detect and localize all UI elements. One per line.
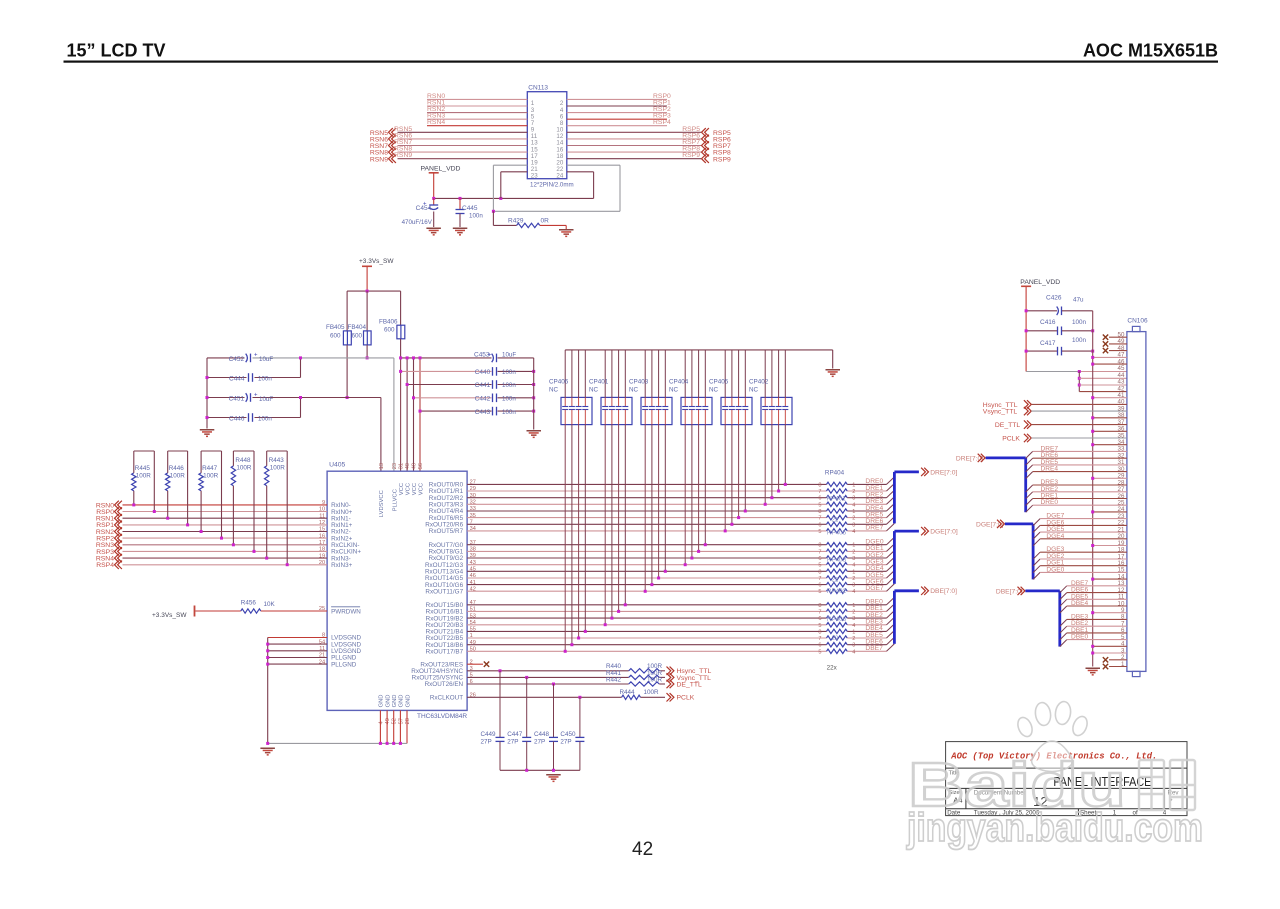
node DBE6 label bbox=[865, 639, 883, 646]
wire VCC pin48 drop bbox=[413, 358, 415, 471]
wire DRE1 from U405 bbox=[467, 490, 826, 492]
svg-text:CP404: CP404 bbox=[669, 379, 689, 386]
svg-text:FB405: FB405 bbox=[326, 324, 345, 331]
junction DBE7 cap tap bbox=[564, 650, 567, 653]
wire RSN7 to CN113 pin 15 bbox=[398, 145, 528, 147]
svg-text:C440: C440 bbox=[475, 369, 491, 376]
resistor pack RP403 label bbox=[827, 557, 847, 564]
connector CN113 bbox=[527, 85, 567, 179]
node RSN3 label bbox=[427, 113, 445, 120]
svg-text:2: 2 bbox=[852, 609, 855, 615]
resistor pack RP406 label bbox=[827, 616, 847, 623]
junction DGE3 cap tap bbox=[684, 563, 687, 566]
resistor R440 100R bbox=[467, 663, 665, 673]
wire C442 row bbox=[414, 397, 534, 399]
svg-text:RSN9: RSN9 bbox=[370, 156, 388, 163]
svg-text:+3.3Vs_SW: +3.3Vs_SW bbox=[359, 258, 394, 265]
svg-text:27P: 27P bbox=[560, 738, 571, 745]
svg-text:RxOUT17/B7: RxOUT17/B7 bbox=[426, 649, 464, 656]
off-page connector RSP7 bbox=[702, 141, 731, 150]
wire CP cap column to DRE1 bbox=[778, 425, 780, 491]
off-page connector DRE[7:0] in bbox=[956, 454, 985, 463]
wire CP cap column to DRE3 bbox=[764, 425, 766, 505]
svg-text:100n: 100n bbox=[502, 409, 516, 416]
svg-text:3: 3 bbox=[852, 616, 855, 622]
wire CP cap column to DRE5 bbox=[738, 425, 740, 518]
svg-text:GND: GND bbox=[405, 695, 411, 708]
capacitor C442 100n bbox=[475, 394, 517, 403]
capacitor network CP402 NC bbox=[749, 350, 792, 425]
U405 left GND pin names bbox=[319, 633, 362, 669]
svg-text:5: 5 bbox=[818, 623, 821, 629]
svg-text:4: 4 bbox=[378, 721, 384, 724]
wire C440 row bbox=[401, 370, 534, 372]
wire DRE2 RP to bus bbox=[847, 497, 886, 499]
svg-text:5: 5 bbox=[818, 502, 821, 508]
svg-text:24: 24 bbox=[556, 173, 563, 180]
wire RSP0 to U405 bbox=[123, 511, 328, 513]
resistor pack RP401 label bbox=[827, 495, 847, 502]
off-page connector RSP6 bbox=[702, 135, 731, 144]
resistor R444 100R bbox=[467, 689, 665, 700]
junction PANEL_VDD-pin23 bbox=[499, 197, 502, 200]
svg-text:100n: 100n bbox=[502, 396, 516, 403]
svg-text:RP404: RP404 bbox=[825, 470, 845, 477]
wire CP cap column to DGE1 bbox=[698, 425, 700, 552]
node DGE4 label bbox=[865, 565, 883, 572]
junction C442 tap bbox=[412, 396, 415, 399]
node DBE0 label bbox=[865, 599, 883, 606]
svg-text:6: 6 bbox=[818, 643, 821, 649]
wire CP cap column to DGE7 bbox=[644, 425, 646, 592]
svg-text:23: 23 bbox=[392, 463, 398, 469]
off-page connector RSN2 input bbox=[96, 527, 122, 536]
svg-text:RP406: RP406 bbox=[827, 616, 847, 623]
svg-text:6: 6 bbox=[818, 522, 821, 528]
off-page connector DGE[7:0] in bbox=[976, 520, 1004, 529]
junction DRE7 cap tap bbox=[724, 529, 727, 532]
svg-text:1: 1 bbox=[852, 629, 855, 635]
off-page connector DRE[7:0] out bbox=[921, 468, 957, 477]
svg-text:DRE[7:0]: DRE[7:0] bbox=[930, 469, 957, 476]
svg-text:R442: R442 bbox=[606, 676, 622, 683]
svg-text:1: 1 bbox=[852, 569, 855, 575]
wire DRE3 RP to bus bbox=[847, 503, 886, 505]
svg-text:PLLGND: PLLGND bbox=[331, 661, 357, 668]
svg-text:3: 3 bbox=[852, 643, 855, 649]
junction rail A x48 bbox=[412, 356, 415, 359]
node DGE6 label bbox=[865, 578, 883, 585]
wire DGE6 from U405 bbox=[467, 584, 826, 586]
node RSN0 label bbox=[427, 93, 445, 100]
junction DBE5 cap tap bbox=[577, 637, 580, 640]
wire DRE7 from U405 bbox=[467, 530, 826, 532]
svg-text:R429: R429 bbox=[508, 218, 524, 225]
svg-text:DGE[7:0]: DGE[7:0] bbox=[930, 529, 958, 536]
svg-text:5: 5 bbox=[818, 529, 821, 535]
svg-text:4: 4 bbox=[852, 623, 855, 629]
svg-text:12*2PIN/2.0mm: 12*2PIN/2.0mm bbox=[530, 182, 574, 189]
wire CP cap column to DBE4 bbox=[584, 425, 586, 632]
svg-text:CN106: CN106 bbox=[1127, 318, 1148, 325]
svg-text:R446: R446 bbox=[169, 465, 185, 472]
wire CP cap column to DBE7 bbox=[564, 425, 566, 652]
wire VDD pin43 bbox=[1079, 384, 1127, 386]
junction VDD branch bbox=[1078, 370, 1081, 373]
node DGE3 label bbox=[865, 559, 883, 566]
wire RSP2 from CN113 pin 6 bbox=[567, 112, 667, 114]
wire DE_TTL to CN106 bbox=[1031, 424, 1127, 426]
wire CN113 pin23 stub bbox=[501, 172, 528, 199]
junction rail A x40 bbox=[406, 356, 409, 359]
svg-text:6: 6 bbox=[818, 616, 821, 622]
svg-text:57: 57 bbox=[398, 718, 404, 724]
junction C442 right bbox=[532, 396, 535, 399]
svg-text:C446: C446 bbox=[229, 416, 245, 423]
junction Vsync_TTL cap tap bbox=[525, 676, 528, 679]
svg-text:100n: 100n bbox=[258, 416, 272, 423]
svg-text:27P: 27P bbox=[534, 738, 545, 745]
wire CP cap column to DRE0 bbox=[784, 425, 786, 485]
junction bottom GND rail bbox=[266, 742, 402, 745]
wire PANEL_VDD to pin45 bbox=[1026, 371, 1127, 373]
svg-text:jingyan.baidu.com: jingyan.baidu.com bbox=[906, 806, 1203, 850]
ground left cap group bbox=[200, 429, 215, 437]
wire DGE3 from U405 bbox=[467, 564, 826, 566]
svg-text:2: 2 bbox=[852, 489, 855, 495]
off-page connector RSN3 input bbox=[96, 541, 122, 550]
svg-text:100R: 100R bbox=[236, 465, 252, 472]
svg-text:R444: R444 bbox=[620, 689, 636, 696]
node DGE0 label bbox=[865, 539, 883, 546]
off-page connector RSN8 bbox=[370, 148, 396, 157]
svg-text:2: 2 bbox=[852, 636, 855, 642]
node DBE1 label bbox=[865, 605, 883, 612]
wire DGE6 RP to bus bbox=[847, 584, 886, 586]
wire C451 row bbox=[207, 397, 381, 399]
svg-text:GND: GND bbox=[385, 695, 391, 708]
resistor pack rows 0 bbox=[818, 482, 855, 508]
svg-text:8: 8 bbox=[818, 509, 821, 515]
wire DGE1 from U405 bbox=[467, 550, 826, 552]
wire DGE0 RP to bus bbox=[847, 544, 886, 546]
node RSN1 label bbox=[427, 100, 445, 107]
wire CP top rail bbox=[565, 350, 833, 369]
capacitor C446 100n bbox=[229, 413, 272, 422]
svg-text:42: 42 bbox=[1118, 385, 1125, 392]
svg-text:C445: C445 bbox=[462, 205, 478, 212]
svg-text:PANEL_VDD: PANEL_VDD bbox=[421, 166, 461, 173]
svg-text:1: 1 bbox=[852, 543, 855, 549]
svg-text:PANEL_VDD: PANEL_VDD bbox=[1020, 279, 1060, 286]
off-page connector Vsync_TTL bbox=[667, 673, 712, 682]
wire RSN2 to U405 bbox=[123, 531, 328, 533]
wire VCC rail A bbox=[401, 357, 534, 359]
wire CP cap column to DGE2 bbox=[691, 425, 693, 558]
wire C446 row bbox=[207, 417, 301, 419]
svg-text:DRE4: DRE4 bbox=[1041, 466, 1059, 473]
junction DBE3 cap tap bbox=[604, 623, 607, 626]
value 22 label b bbox=[832, 577, 839, 583]
svg-text:C441: C441 bbox=[475, 382, 491, 389]
wire DGE5 RP to bus bbox=[847, 577, 886, 579]
wire RSN8 to CN113 pin 17 bbox=[398, 151, 528, 153]
capacitor C444 100n bbox=[229, 373, 272, 382]
junction VDD pin43 bbox=[1078, 384, 1081, 387]
node DRE4 label bbox=[865, 505, 883, 512]
junction C451 row right bbox=[299, 396, 302, 399]
wire CN106 gnd pin stubs bbox=[1091, 356, 1127, 655]
junction C452 row right bbox=[299, 356, 302, 359]
junction R448 leg a bbox=[232, 543, 235, 546]
svg-text:C443: C443 bbox=[475, 409, 491, 416]
wire DBE7 RP to bus bbox=[847, 650, 886, 652]
svg-text:7: 7 bbox=[818, 516, 821, 522]
ferrite bead FB406 bbox=[379, 319, 405, 339]
svg-text:15” LCD TV: 15” LCD TV bbox=[67, 41, 166, 61]
wire DRE7 RP to bus bbox=[847, 530, 886, 532]
svg-text:RSP9: RSP9 bbox=[713, 156, 731, 163]
svg-text:RxIN3+: RxIN3+ bbox=[331, 562, 352, 569]
junction R445 leg b bbox=[153, 510, 156, 513]
wire DGE5 from U405 bbox=[467, 577, 826, 579]
svg-text:5: 5 bbox=[818, 649, 821, 655]
node DRE6 label bbox=[865, 518, 883, 525]
wire RSP4 to U405 bbox=[123, 564, 328, 566]
op-amp U405 LVDS transmitter body bbox=[327, 462, 467, 720]
junction R443 leg b bbox=[286, 563, 289, 566]
no-connect X pins CN106 bbox=[1103, 335, 1127, 670]
svg-text:DGE0: DGE0 bbox=[1046, 566, 1064, 573]
svg-text:LVDSVCC: LVDSVCC bbox=[379, 490, 385, 517]
svg-text:49: 49 bbox=[385, 718, 391, 724]
wire VCC pin56 drop bbox=[419, 358, 421, 471]
node RSP4 label bbox=[653, 119, 671, 126]
wire DGE7 from U405 bbox=[467, 590, 826, 592]
connector CN106 bbox=[1127, 318, 1148, 677]
svg-text:100n: 100n bbox=[1072, 319, 1087, 326]
bus DGE[7:0] branch labels bbox=[1046, 513, 1064, 574]
svg-text:R456: R456 bbox=[241, 600, 257, 607]
wire DRE2 from U405 bbox=[467, 497, 826, 499]
wire DBE1 RP to bus bbox=[847, 610, 886, 612]
title block PANEL INTERFACE bbox=[1053, 774, 1151, 789]
off-page connector RSN6 bbox=[370, 135, 396, 144]
wire VCC pin31 drop bbox=[400, 358, 402, 471]
svg-text:100R: 100R bbox=[170, 473, 186, 480]
off-page connector RSN0 input bbox=[96, 501, 122, 510]
wire DGE0 from U405 bbox=[467, 544, 826, 546]
svg-text:VCC: VCC bbox=[418, 483, 424, 495]
junction PANEL_VDD-C445 bbox=[459, 197, 462, 200]
wire DBE2 from U405 bbox=[467, 617, 826, 619]
junction left leg C451 bbox=[206, 396, 209, 399]
wire CP cap column to DGE5 bbox=[658, 425, 660, 578]
wire DBE5 RP to bus bbox=[847, 637, 886, 639]
svg-text:GND: GND bbox=[379, 695, 385, 708]
svg-text:27P: 27P bbox=[481, 738, 492, 745]
junction R446 leg a bbox=[166, 517, 169, 520]
wire CN113 pin21 stub bbox=[493, 165, 527, 211]
capacitor network CP405 NC bbox=[709, 350, 752, 425]
wire CP cap column to DBE6 bbox=[571, 425, 573, 645]
svg-text:C452: C452 bbox=[229, 356, 245, 363]
svg-text:47u: 47u bbox=[1073, 297, 1084, 304]
wire DRE5 RP to bus bbox=[847, 517, 886, 519]
bus DBE[7:0] branch labels bbox=[1071, 580, 1089, 641]
wire LVDSGND vertical bbox=[267, 638, 269, 744]
title block date row bbox=[947, 809, 1167, 816]
title block Title label bbox=[949, 771, 960, 777]
wire DGE4 RP to bus bbox=[847, 570, 886, 572]
ferrite bead FB405 bbox=[326, 324, 351, 345]
svg-text:4: 4 bbox=[852, 649, 855, 655]
wire DGE3 RP to bus bbox=[847, 564, 886, 566]
svg-text:8: 8 bbox=[818, 543, 821, 549]
resistor R456 10K bbox=[195, 600, 327, 614]
power symbol +3.3Vs_SW left bbox=[152, 606, 195, 619]
wire DBE3 RP to bus bbox=[847, 624, 886, 626]
off-page connector RSN7 bbox=[370, 141, 396, 150]
node DGE5 label bbox=[865, 572, 883, 579]
capacitor network CP403 NC bbox=[629, 350, 672, 425]
off-page connector RSP5 bbox=[702, 128, 731, 137]
svg-text:6: 6 bbox=[818, 496, 821, 502]
junction DGE1 cap tap bbox=[697, 550, 700, 553]
svg-text:2: 2 bbox=[852, 549, 855, 555]
svg-text:C450: C450 bbox=[560, 731, 576, 738]
wire U405 bottom GND drops bbox=[380, 710, 407, 743]
capacitor C453 10uF bbox=[474, 352, 516, 363]
node DBE5 label bbox=[865, 632, 883, 639]
svg-text:C448: C448 bbox=[534, 731, 550, 738]
node RSN2 label bbox=[427, 106, 445, 113]
wire DGE7 RP to bus bbox=[847, 590, 886, 592]
svg-text:+: + bbox=[488, 353, 492, 359]
title block frame bbox=[946, 742, 1187, 816]
capacitor network CP404 NC bbox=[669, 350, 712, 425]
node RSP8 label bbox=[682, 146, 700, 153]
svg-text:10K: 10K bbox=[264, 601, 276, 608]
wire RSN4 to CN113 pin 9 bbox=[427, 125, 527, 127]
svg-text:DBE4: DBE4 bbox=[1071, 600, 1089, 607]
node DBE4 label bbox=[865, 625, 883, 632]
capacitor C447 27P bbox=[507, 677, 531, 770]
junction LVDSGND verticals bbox=[266, 643, 269, 666]
svg-text:100R: 100R bbox=[136, 473, 152, 480]
svg-text:42: 42 bbox=[632, 839, 653, 860]
wire C446 right riser bbox=[300, 398, 302, 418]
svg-text:100n: 100n bbox=[502, 369, 516, 376]
junction DRE0 cap tap bbox=[784, 483, 787, 486]
wire C444 row bbox=[207, 377, 301, 379]
svg-text:VCC: VCC bbox=[412, 483, 418, 495]
node RSP2 label bbox=[653, 106, 671, 113]
junction C417 left bbox=[1025, 350, 1095, 353]
wire bottom GND rail bbox=[268, 742, 407, 744]
svg-text:600: 600 bbox=[384, 327, 395, 334]
resistor pack rows 2 bbox=[818, 543, 855, 569]
wire DBE4 RP to bus bbox=[847, 630, 886, 632]
junction DRE5 cap tap bbox=[737, 516, 740, 519]
svg-text:RP402: RP402 bbox=[827, 588, 847, 595]
value 22 label c bbox=[832, 636, 839, 642]
svg-text:NC: NC bbox=[549, 387, 559, 394]
wire Vsync_TTL to CN106 bbox=[1031, 410, 1127, 412]
svg-text:1: 1 bbox=[852, 509, 855, 515]
svg-text:THC63LVDM84R: THC63LVDM84R bbox=[417, 713, 467, 720]
svg-text:10uF: 10uF bbox=[259, 356, 273, 363]
svg-text:1: 1 bbox=[852, 482, 855, 488]
wire CP cap column to DBE1 bbox=[618, 425, 620, 612]
bus DGE[7:0] fan trunk bbox=[1005, 524, 1033, 580]
svg-text:CP406: CP406 bbox=[549, 379, 569, 386]
svg-text:RxOUT5/R7: RxOUT5/R7 bbox=[429, 528, 464, 535]
svg-text:4: 4 bbox=[852, 502, 855, 508]
svg-text:NC: NC bbox=[629, 387, 639, 394]
wire DBE7 from U405 bbox=[467, 650, 826, 652]
bus DBE[7:0] fan trunk bbox=[1025, 591, 1059, 647]
wire FB feed rail bbox=[347, 290, 401, 292]
svg-text:FB404: FB404 bbox=[348, 324, 367, 331]
svg-text:PWRDWN: PWRDWN bbox=[331, 609, 361, 616]
node RSN6 label bbox=[394, 132, 412, 139]
svg-text:RP403: RP403 bbox=[827, 557, 847, 564]
wire CN113 pin24 loop bbox=[567, 172, 594, 199]
junction C440 right bbox=[532, 370, 535, 373]
wire CP cap column to DGE0 bbox=[704, 425, 706, 545]
capacitor C416 100n bbox=[1026, 319, 1093, 335]
node DRE1 label bbox=[865, 485, 883, 492]
node RSN5 label bbox=[394, 126, 412, 133]
svg-text:R447: R447 bbox=[202, 465, 218, 472]
CN113 pin numbers 1-24 bbox=[531, 100, 564, 179]
svg-text:NC: NC bbox=[589, 387, 599, 394]
svg-text:4: 4 bbox=[852, 563, 855, 569]
svg-text:3: 3 bbox=[852, 556, 855, 562]
svg-text:+: + bbox=[423, 202, 427, 208]
svg-text:100n: 100n bbox=[258, 376, 272, 383]
node DBE3 label bbox=[865, 619, 883, 626]
title block company name bbox=[950, 750, 1157, 761]
wire RSN0 to U405 bbox=[123, 504, 328, 506]
power symbol PANEL_VDD bbox=[421, 166, 461, 199]
svg-text:DE_TTL: DE_TTL bbox=[995, 422, 1021, 429]
value 22x label bbox=[827, 665, 838, 672]
svg-text:+: + bbox=[254, 353, 258, 359]
resistor pack rows 4 bbox=[818, 603, 855, 629]
svg-text:44: 44 bbox=[1118, 372, 1125, 379]
wire PLLVCC pin23 drop bbox=[393, 358, 395, 471]
wire DBE5 from U405 bbox=[467, 637, 826, 639]
ground below C445 bbox=[453, 228, 468, 236]
junction C441 tap bbox=[406, 383, 409, 386]
junction R443 leg a bbox=[265, 557, 268, 560]
svg-text:43: 43 bbox=[1118, 379, 1125, 386]
capacitor C448 27P bbox=[534, 684, 558, 770]
svg-text:C426: C426 bbox=[1046, 295, 1062, 302]
junction PCLK cap tap bbox=[578, 696, 581, 699]
ground below C454 bbox=[426, 228, 441, 236]
svg-text:2: 2 bbox=[852, 516, 855, 522]
off-page connector PCLK mid bbox=[667, 693, 695, 702]
junction DRE3 cap tap bbox=[764, 503, 767, 506]
svg-text:C451: C451 bbox=[229, 396, 245, 403]
off-page connector RSP4 input bbox=[96, 561, 122, 570]
svg-text:CP403: CP403 bbox=[629, 379, 649, 386]
wire CP cap column to DBE2 bbox=[611, 425, 613, 618]
svg-text:27P: 27P bbox=[507, 738, 518, 745]
